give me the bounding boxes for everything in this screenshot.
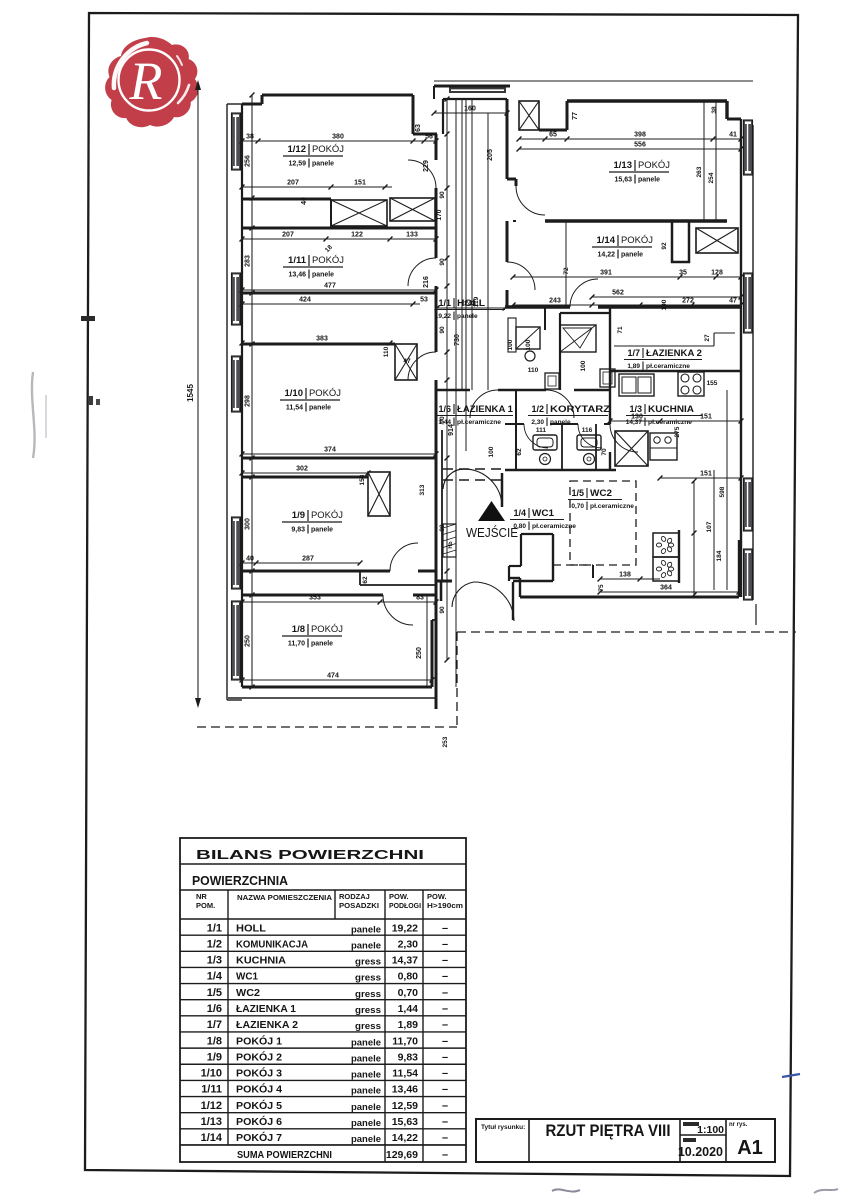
svg-text:391: 391 (600, 270, 612, 277)
svg-text:47: 47 (729, 298, 737, 305)
svg-text:380: 380 (332, 134, 344, 141)
svg-text:ŁAZIENKA 1: ŁAZIENKA 1 (236, 1003, 296, 1015)
svg-text:477: 477 (324, 283, 336, 290)
svg-text:panele: panele (309, 405, 331, 412)
svg-text:POW.: POW. (389, 892, 409, 901)
svg-text:POKÓJ 2: POKÓJ 2 (236, 1050, 282, 1063)
svg-text:–: – (442, 938, 448, 950)
svg-text:250: 250 (416, 647, 423, 659)
svg-text:panele: panele (351, 940, 381, 951)
svg-text:62: 62 (362, 576, 369, 584)
svg-text:panele: panele (351, 1037, 381, 1048)
svg-text:panele: panele (351, 1118, 381, 1129)
svg-text:0,70: 0,70 (398, 987, 419, 999)
svg-text:1/2: 1/2 (207, 938, 222, 950)
svg-text:pł.ceramiczne: pł.ceramiczne (646, 363, 690, 370)
svg-text:313: 313 (419, 484, 426, 495)
svg-text:–: – (442, 1132, 448, 1144)
svg-text:275: 275 (674, 426, 681, 437)
svg-text:–: – (442, 955, 448, 967)
svg-text:1/12: 1/12 (288, 144, 307, 155)
svg-text:10.2020: 10.2020 (678, 1145, 723, 1159)
svg-text:90: 90 (439, 258, 446, 266)
svg-text:272: 272 (682, 298, 694, 305)
svg-text:364: 364 (660, 585, 672, 592)
svg-text:WC2: WC2 (590, 488, 612, 498)
svg-text:–: – (442, 1068, 448, 1080)
svg-text:POKÓJ 5: POKÓJ 5 (236, 1099, 282, 1112)
svg-text:1/1: 1/1 (207, 922, 222, 934)
svg-text:151: 151 (700, 471, 712, 478)
svg-text:POKÓJ: POKÓJ (309, 388, 341, 399)
svg-text:1/11: 1/11 (288, 255, 307, 266)
svg-text:424: 424 (299, 297, 311, 304)
svg-text:11,54: 11,54 (392, 1068, 418, 1080)
svg-text:–: – (442, 922, 448, 934)
svg-text:ŁAZIENKA 2: ŁAZIENKA 2 (236, 1019, 298, 1031)
svg-text:POKÓJ: POKÓJ (312, 144, 344, 155)
svg-text:POKÓJ: POKÓJ (312, 255, 344, 266)
svg-text:1/14: 1/14 (201, 1132, 223, 1144)
svg-text:160: 160 (464, 106, 476, 113)
svg-text:Hb: Hb (448, 541, 454, 549)
svg-text:90: 90 (439, 416, 446, 424)
svg-text:151: 151 (354, 180, 366, 187)
svg-text:–: – (442, 971, 448, 983)
svg-text:1/5: 1/5 (571, 488, 584, 498)
svg-text:panele: panele (457, 313, 478, 320)
svg-text:1/9: 1/9 (207, 1051, 222, 1063)
svg-text:100: 100 (507, 339, 514, 350)
svg-text:90: 90 (439, 191, 446, 199)
svg-text:107: 107 (706, 521, 713, 532)
svg-text:1/12: 1/12 (201, 1100, 222, 1112)
svg-text:WEJŚCIE: WEJŚCIE (466, 525, 518, 540)
svg-text:35: 35 (679, 270, 687, 277)
svg-text:14,37: 14,37 (392, 955, 418, 967)
svg-text:R: R (129, 51, 163, 111)
svg-text:116: 116 (582, 427, 593, 434)
svg-text:256: 256 (245, 155, 252, 167)
svg-text:158: 158 (359, 474, 366, 485)
svg-text:1/13: 1/13 (201, 1116, 222, 1128)
svg-text:1/8: 1/8 (207, 1035, 222, 1047)
svg-text:RODZAJ: RODZAJ (339, 892, 370, 901)
svg-text:184: 184 (716, 550, 723, 561)
svg-text:panele: panele (621, 252, 643, 259)
svg-text:11,70: 11,70 (392, 1035, 418, 1047)
svg-text:POM.: POM. (196, 901, 215, 910)
svg-text:243: 243 (549, 298, 561, 305)
svg-text:474: 474 (327, 673, 339, 680)
svg-text:POKÓJ 1: POKÓJ 1 (236, 1034, 282, 1047)
svg-text:53: 53 (420, 297, 428, 304)
svg-text:pł.ceramiczne: pł.ceramiczne (532, 523, 576, 530)
svg-text:1,44: 1,44 (398, 1003, 419, 1015)
svg-text:SUMA POWIERZCHNI: SUMA POWIERZCHNI (237, 1149, 332, 1161)
svg-text:302: 302 (296, 466, 308, 473)
svg-text:130: 130 (631, 414, 643, 421)
svg-text:129,69: 129,69 (386, 1149, 418, 1161)
svg-text:90: 90 (439, 326, 446, 334)
svg-text:Tytuł rysunku:: Tytuł rysunku: (481, 1124, 525, 1131)
svg-text:gress: gress (355, 973, 381, 984)
svg-text:100: 100 (488, 446, 495, 457)
svg-text:ŁAZIENKA 1: ŁAZIENKA 1 (457, 404, 513, 414)
svg-text:77: 77 (572, 112, 579, 120)
svg-text:KUCHNIA: KUCHNIA (648, 404, 695, 414)
svg-text:300: 300 (245, 518, 252, 530)
svg-text:14,22: 14,22 (597, 252, 615, 259)
svg-text:298: 298 (245, 395, 252, 407)
svg-text:pł.ceramiczne: pł.ceramiczne (648, 419, 692, 426)
svg-text:–: – (442, 1035, 448, 1047)
svg-text:38: 38 (711, 106, 718, 114)
svg-text:gress: gress (355, 957, 381, 968)
svg-text:383: 383 (316, 336, 328, 343)
svg-text:POKÓJ 6: POKÓJ 6 (236, 1115, 282, 1128)
svg-text:–: – (442, 1116, 448, 1128)
svg-text:WC2: WC2 (236, 987, 260, 999)
svg-text:WC1: WC1 (532, 508, 554, 518)
svg-text:1/7: 1/7 (207, 1019, 222, 1031)
svg-text:HOLL: HOLL (236, 922, 267, 934)
svg-text:1/10: 1/10 (285, 388, 304, 399)
svg-text:398: 398 (634, 132, 646, 139)
svg-text:panele: panele (638, 177, 660, 184)
svg-text:panele: panele (351, 924, 381, 935)
svg-text:151: 151 (700, 414, 712, 421)
svg-text:1545: 1545 (186, 384, 195, 402)
svg-text:1/1: 1/1 (438, 298, 451, 308)
svg-text:1/3: 1/3 (629, 404, 642, 414)
svg-text:1/10: 1/10 (201, 1068, 222, 1080)
svg-text:71: 71 (617, 326, 624, 334)
svg-text:128: 128 (711, 270, 723, 277)
svg-text:263: 263 (696, 166, 703, 177)
svg-text:283: 283 (245, 255, 252, 267)
svg-text:374: 374 (324, 447, 336, 454)
svg-text:250: 250 (245, 635, 252, 647)
svg-text:138: 138 (619, 572, 631, 579)
svg-text:PODŁOGI: PODŁOGI (389, 901, 421, 910)
svg-text:0,80: 0,80 (513, 523, 526, 530)
svg-text:13,46: 13,46 (392, 1084, 418, 1096)
svg-text:40: 40 (246, 556, 254, 563)
svg-text:POWIERZCHNIA: POWIERZCHNIA (192, 873, 289, 888)
svg-text:nr rys.: nr rys. (729, 1122, 748, 1128)
svg-text:BILANS POWIERZCHNI: BILANS POWIERZCHNI (196, 847, 424, 862)
svg-text:19,22: 19,22 (392, 922, 418, 934)
svg-text:243: 243 (464, 301, 476, 308)
svg-text:207: 207 (287, 180, 299, 187)
svg-text:gress: gress (355, 1021, 381, 1032)
svg-text:83: 83 (416, 595, 424, 602)
svg-text:POKÓJ: POKÓJ (311, 510, 343, 521)
svg-text:1/4: 1/4 (513, 508, 526, 518)
svg-text:56: 56 (425, 134, 433, 141)
svg-text:pł.ceramiczne: pł.ceramiczne (457, 419, 501, 426)
svg-text:100: 100 (580, 360, 587, 371)
svg-text:14,22: 14,22 (392, 1132, 418, 1144)
svg-text:70: 70 (601, 448, 608, 456)
svg-text:12,59: 12,59 (288, 161, 306, 168)
svg-text:110: 110 (383, 346, 390, 357)
svg-text:POSADZKI: POSADZKI (339, 901, 379, 910)
svg-text:panele: panele (351, 1102, 381, 1113)
svg-text:RZUT PIĘTRA VIII: RZUT PIĘTRA VIII (546, 1121, 671, 1140)
svg-text:556: 556 (634, 142, 646, 149)
svg-text:POKÓJ: POKÓJ (638, 160, 670, 171)
svg-text:65: 65 (549, 132, 557, 139)
svg-text:POKÓJ 3: POKÓJ 3 (236, 1067, 282, 1080)
svg-text:pł.ceramiczne: pł.ceramiczne (590, 503, 634, 510)
svg-text:9,83: 9,83 (291, 527, 305, 534)
svg-text:panele: panele (312, 272, 334, 279)
svg-text:254: 254 (708, 172, 715, 183)
svg-text:KORYTARZ: KORYTARZ (550, 404, 611, 414)
svg-text:panele: panele (311, 527, 333, 534)
svg-text:gress: gress (355, 989, 381, 1000)
svg-text:15,63: 15,63 (392, 1116, 418, 1128)
svg-text:–: – (442, 1003, 448, 1015)
svg-text:41: 41 (729, 132, 737, 139)
svg-text:62: 62 (516, 448, 523, 456)
svg-text:38: 38 (246, 134, 254, 141)
svg-text:–: – (442, 987, 448, 999)
svg-text:18: 18 (324, 244, 334, 254)
svg-text:POKÓJ: POKÓJ (311, 624, 343, 635)
svg-text:POKÓJ 7: POKÓJ 7 (236, 1131, 282, 1144)
svg-text:11,70: 11,70 (288, 641, 305, 648)
svg-text:–: – (442, 1100, 448, 1112)
svg-text:1/9: 1/9 (292, 510, 305, 521)
svg-text:–: – (442, 1051, 448, 1063)
svg-text:1/13: 1/13 (614, 160, 633, 171)
svg-text:27: 27 (704, 334, 711, 342)
svg-text:730: 730 (454, 334, 461, 346)
svg-text:–: – (442, 1149, 448, 1161)
svg-text:1/7: 1/7 (627, 348, 640, 358)
svg-text:1,89: 1,89 (627, 363, 640, 370)
svg-text:75: 75 (598, 584, 605, 592)
svg-text:panele: panele (550, 419, 571, 426)
svg-text:1/6: 1/6 (438, 404, 451, 414)
svg-text:914: 914 (448, 424, 455, 436)
svg-text:40: 40 (301, 197, 308, 205)
svg-text:92: 92 (661, 242, 668, 250)
svg-text:111: 111 (536, 427, 547, 434)
svg-text:POKÓJ 4: POKÓJ 4 (236, 1083, 282, 1096)
svg-text:253: 253 (442, 736, 449, 747)
svg-text:47: 47 (403, 358, 411, 365)
svg-text:1/3: 1/3 (207, 955, 222, 967)
svg-text:11,54: 11,54 (286, 405, 303, 412)
svg-text:–: – (442, 1084, 448, 1096)
svg-text:90: 90 (439, 606, 446, 614)
svg-text:1/11: 1/11 (201, 1084, 222, 1096)
svg-text:9,83: 9,83 (398, 1051, 419, 1063)
svg-text:122: 122 (351, 232, 363, 239)
svg-text:ŁAZIENKA 2: ŁAZIENKA 2 (646, 348, 702, 358)
svg-text:POW.: POW. (427, 892, 447, 901)
svg-text:15,63: 15,63 (614, 177, 632, 184)
svg-text:13,46: 13,46 (288, 272, 306, 279)
svg-text:panele: panele (351, 1086, 381, 1097)
svg-text:1/2: 1/2 (531, 404, 544, 414)
svg-text:KUCHNIA: KUCHNIA (236, 955, 286, 967)
svg-text:12,59: 12,59 (392, 1100, 418, 1112)
svg-text:panele: panele (351, 1053, 381, 1064)
svg-text:panele: panele (311, 641, 333, 648)
svg-text:216: 216 (423, 276, 430, 288)
svg-text:panele: panele (351, 1134, 381, 1145)
svg-text:19,22: 19,22 (435, 313, 452, 320)
svg-text:POKÓJ: POKÓJ (621, 235, 653, 246)
svg-text:133: 133 (406, 232, 418, 239)
svg-text:100: 100 (525, 339, 532, 350)
svg-text:0,70: 0,70 (571, 503, 584, 510)
svg-text:170: 170 (436, 209, 443, 220)
svg-text:1/4: 1/4 (207, 971, 223, 983)
svg-text:2,30: 2,30 (531, 419, 544, 426)
svg-text:72: 72 (563, 267, 570, 275)
svg-text:NR: NR (196, 892, 207, 901)
svg-text:H>190cm: H>190cm (427, 901, 463, 910)
svg-text:1/6: 1/6 (207, 1003, 222, 1015)
svg-text:NAZWA POMIESZCZENIA: NAZWA POMIESZCZENIA (237, 893, 333, 902)
svg-text:63: 63 (415, 124, 422, 132)
svg-text:1/5: 1/5 (207, 987, 222, 999)
svg-text:207: 207 (282, 232, 294, 239)
svg-text:panele: panele (312, 161, 334, 168)
svg-text:A1: A1 (737, 1137, 763, 1159)
svg-text:90: 90 (439, 524, 446, 532)
svg-text:562: 562 (612, 290, 624, 297)
svg-text:gress: gress (355, 1005, 381, 1016)
svg-text:1:100: 1:100 (697, 1124, 724, 1136)
svg-text:598: 598 (719, 486, 726, 497)
svg-text:110: 110 (528, 367, 539, 374)
svg-text:KOMUNIKACJA: KOMUNIKACJA (236, 938, 308, 950)
svg-text:0,80: 0,80 (398, 971, 419, 983)
svg-text:353: 353 (309, 595, 321, 602)
svg-text:1/14: 1/14 (597, 235, 616, 246)
svg-text:229: 229 (423, 160, 430, 172)
svg-text:155: 155 (707, 380, 718, 387)
svg-text:1/8: 1/8 (292, 624, 305, 635)
svg-text:2,30: 2,30 (398, 938, 419, 950)
svg-text:287: 287 (302, 556, 314, 563)
svg-text:1,89: 1,89 (398, 1019, 419, 1031)
svg-text:panele: panele (351, 1070, 381, 1081)
svg-text:–: – (442, 1019, 448, 1031)
svg-text:WC1: WC1 (236, 971, 258, 983)
